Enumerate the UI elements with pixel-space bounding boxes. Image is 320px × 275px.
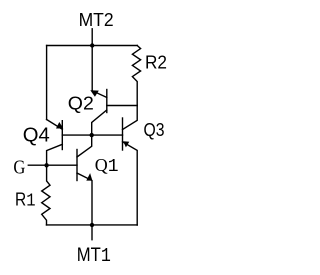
transistor Q1 emitter diagonal (77, 173, 92, 225)
transistor Q2 emitter arrow (90, 90, 99, 97)
transistor Q3 emitter arrow (123, 141, 129, 147)
svg-text:G: G (13, 157, 25, 178)
svg-text:MT2: MT2 (79, 10, 114, 30)
junction dot central node (90, 133, 94, 137)
junction dot MT2 node (90, 43, 94, 47)
wire R2 bottom to Q3 collector (123, 106, 138, 130)
wire Q2 emitter vertical (91, 46, 93, 91)
transistor Q4 collector lead (47, 144, 63, 165)
transistor Q3 emitter diagonal (123, 142, 138, 225)
wire left vertical to Q4 emitter (46, 46, 48, 120)
wire top horizontal MT2 rail (47, 45, 138, 47)
svg-text:MT1: MT1 (77, 245, 111, 267)
svg-text:Q2: Q2 (68, 94, 94, 114)
svg-text:Q4: Q4 (23, 124, 50, 146)
wire gate G horizontal (28, 164, 77, 166)
wire bottom horizontal MT1 rail (47, 224, 138, 226)
transistor Q2 bar (106, 90, 108, 113)
transistor Q1 emitter arrow (86, 173, 92, 181)
svg-text:R2: R2 (145, 53, 167, 73)
wire central base rail Q4-Q3 (62, 134, 122, 136)
resistor R2 (132, 46, 140, 106)
transistor Q2 emitter diagonal (92, 91, 107, 98)
svg-text:Q3: Q3 (144, 120, 165, 140)
transistor Q1 bar (76, 150, 78, 181)
transistor Q1 collector lead (77, 135, 92, 157)
junction dot gate node (44, 163, 48, 167)
transistor Q3 bar (122, 118, 124, 150)
svg-text:R1: R1 (15, 190, 36, 212)
transistor Q4 bar (61, 121, 63, 150)
node MT2 terminal stub (91, 29, 93, 46)
junction dot MT1 node (90, 223, 94, 227)
transistor Q2 base lead (107, 105, 137, 107)
resistor R1 (42, 165, 50, 225)
transistor Q4 emitter diagonal (47, 120, 63, 130)
svg-text:Q1: Q1 (95, 155, 119, 177)
node MT1 terminal stub (91, 225, 93, 240)
transistor Q2 collector lead (92, 110, 107, 135)
transistor Q4 emitter arrow (56, 122, 63, 129)
